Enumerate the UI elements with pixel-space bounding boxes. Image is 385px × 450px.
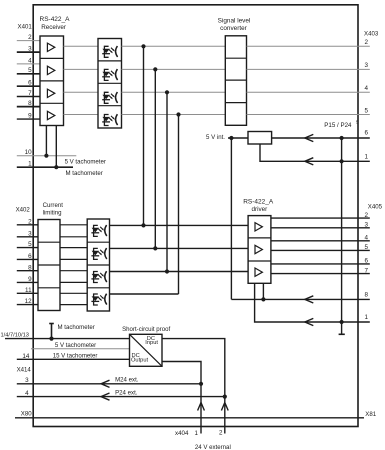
svg-text:8: 8 bbox=[28, 100, 32, 107]
svg-text:11: 11 bbox=[25, 287, 32, 294]
svg-text:Input: Input bbox=[145, 340, 158, 346]
Signal level converter label bbox=[218, 18, 251, 33]
svg-text:1: 1 bbox=[28, 161, 32, 168]
wire 5 V int node bbox=[228, 137, 248, 139]
X414 pin 14 wire (15 V tachometer) bbox=[17, 353, 130, 360]
junction node bus 1 bottom bbox=[141, 223, 145, 227]
svg-text:1: 1 bbox=[195, 430, 199, 437]
M rail wire right of DC converter bbox=[162, 339, 225, 397]
svg-text:15 V tachometer: 15 V tachometer bbox=[53, 352, 98, 359]
svg-text:Output: Output bbox=[131, 358, 148, 364]
svg-text:7: 7 bbox=[28, 90, 32, 97]
svg-text:24 V external: 24 V external bbox=[195, 444, 231, 450]
wire driver bottom to pin8 bbox=[262, 283, 264, 299]
X401 pin 5 wire bbox=[17, 67, 40, 74]
driver buffer 1 bbox=[255, 223, 262, 231]
svg-text:4: 4 bbox=[28, 57, 32, 64]
svg-text:X402: X402 bbox=[16, 206, 31, 213]
wire opto out row 2 to signal converter bbox=[122, 68, 226, 70]
junction node driver gnd on pin8 bbox=[261, 297, 265, 301]
wire receiver out 4 bbox=[64, 114, 99, 116]
X402 pin 12 wire bbox=[17, 298, 38, 305]
wire current-limit to opto pin 3 bbox=[60, 236, 87, 238]
receiver buffer 2 bbox=[47, 66, 54, 74]
wire receiver bottom to pin10 node bbox=[45, 126, 47, 156]
svg-text:Current: Current bbox=[43, 202, 64, 209]
RS-422_A driver label bbox=[243, 199, 274, 214]
label 24 V external bbox=[195, 444, 231, 450]
X402 pin 8 wire bbox=[17, 264, 38, 271]
svg-text:14: 14 bbox=[22, 353, 30, 360]
driver buffer 2 bbox=[255, 245, 262, 253]
M tachometer stub wire bbox=[49, 324, 54, 339]
svg-text:5 V tachometer: 5 V tachometer bbox=[65, 159, 106, 166]
svg-text:X81: X81 bbox=[365, 411, 376, 418]
receiver buffer 3 bbox=[47, 89, 54, 97]
junction node bus 1 top bbox=[141, 44, 145, 48]
svg-text:4: 4 bbox=[364, 85, 368, 92]
svg-text:6: 6 bbox=[28, 80, 32, 87]
arrow into pin 8 wire bbox=[305, 296, 314, 303]
svg-text:M tachometer: M tachometer bbox=[58, 324, 95, 331]
bus wire 4 vertical bbox=[178, 115, 180, 295]
5 V tachometer wire bbox=[31, 348, 130, 350]
receiver U1 block bbox=[40, 36, 64, 126]
svg-text:3: 3 bbox=[28, 230, 32, 237]
svg-text:1: 1 bbox=[364, 153, 368, 160]
svg-text:converter: converter bbox=[220, 25, 248, 32]
current limiting block bbox=[38, 220, 60, 311]
label M24 ext. bbox=[115, 377, 139, 384]
arrow into pin 6 wire bbox=[305, 134, 314, 141]
resistor R1 bbox=[248, 132, 272, 145]
junction node M24/X404-1 bbox=[199, 382, 203, 386]
svg-text:X405: X405 bbox=[368, 204, 383, 211]
X405 pin 8 wire bbox=[231, 292, 369, 300]
X403 pin 3 wire bbox=[247, 62, 370, 69]
RS-422_A Receiver label bbox=[40, 16, 71, 31]
X401 pin 2 wire bbox=[17, 34, 40, 41]
label M tachometer bbox=[66, 170, 103, 177]
svg-text:3: 3 bbox=[364, 62, 368, 69]
wire current-limit to opto pin 5 bbox=[60, 247, 87, 249]
X405 pin 2 wire bbox=[271, 212, 370, 219]
DC output wire to X404 pin 1 bbox=[162, 362, 201, 384]
label 5 V tachometer bbox=[65, 159, 106, 166]
optocoupler U2 bbox=[102, 46, 117, 57]
svg-text:12: 12 bbox=[25, 298, 33, 305]
wire opto-driver row 3 bbox=[110, 271, 249, 273]
X401 pin 6 wire bbox=[17, 80, 40, 87]
junction node bus 3 top bbox=[165, 90, 169, 94]
svg-text:2: 2 bbox=[219, 430, 223, 437]
label Short-circuit proof bbox=[122, 326, 170, 333]
optocoupler U3 bbox=[102, 69, 117, 80]
svg-text:5: 5 bbox=[364, 244, 368, 251]
junction node pin1 bbox=[54, 165, 58, 169]
wire current-limit to opto pin 9 bbox=[60, 281, 87, 283]
wire 5V int down to X405 pin8 line bbox=[230, 138, 232, 299]
svg-text:6: 6 bbox=[364, 130, 368, 137]
X401 pin 1 wire bbox=[17, 161, 73, 168]
optocoupler U9 bbox=[91, 294, 106, 305]
svg-text:X403: X403 bbox=[364, 30, 379, 37]
X403 pin 6 wire (P15/P24 supply) bbox=[272, 130, 370, 139]
svg-text:M tachometer: M tachometer bbox=[66, 170, 103, 177]
receiver buffer 4 bbox=[47, 111, 54, 119]
junction node bus 3 bottom bbox=[165, 269, 169, 273]
wire opto out row 3 to signal converter bbox=[122, 91, 226, 93]
X414 pin 4 wire (P24 ext.) bbox=[17, 390, 225, 397]
svg-text:6: 6 bbox=[364, 258, 368, 265]
svg-text:9: 9 bbox=[28, 276, 32, 283]
svg-text:5 V tachometer: 5 V tachometer bbox=[55, 342, 96, 349]
driver buffer 3 bbox=[255, 268, 262, 276]
wire opto out row 4 to signal converter bbox=[122, 114, 226, 116]
svg-text:3: 3 bbox=[25, 377, 29, 384]
arrow on P24 wire bbox=[101, 393, 110, 400]
X402 pin 3 wire bbox=[17, 230, 38, 237]
optocoupler U8 bbox=[91, 271, 106, 282]
connector X414 label bbox=[17, 366, 32, 373]
X405 pin 6 wire bbox=[271, 258, 370, 265]
svg-text:X80: X80 bbox=[21, 411, 32, 418]
DC/DC converter block bbox=[130, 334, 163, 366]
connector X405 label bbox=[368, 204, 383, 211]
svg-text:10: 10 bbox=[25, 149, 33, 156]
svg-text:P15 / P24: P15 / P24 bbox=[324, 122, 352, 129]
X414 pin 3 wire (M24 ext.) bbox=[17, 377, 201, 384]
X402 pin 5 wire bbox=[17, 241, 38, 248]
wire receiver out 2 bbox=[64, 68, 99, 70]
X405 pin 4 wire bbox=[271, 235, 370, 242]
svg-text:5: 5 bbox=[28, 241, 32, 248]
junction node bus 2 top bbox=[153, 67, 157, 71]
svg-text:X414: X414 bbox=[17, 366, 32, 373]
optocoupler block (driver side) bbox=[87, 219, 109, 311]
module border frame bbox=[33, 5, 358, 427]
connector X402 label bbox=[16, 206, 31, 213]
junction node bus 4 top bbox=[176, 112, 180, 116]
X401 pin 4 wire bbox=[17, 57, 40, 64]
optocoupler U7 bbox=[91, 248, 106, 259]
wire opto out row 1 to signal converter bbox=[122, 45, 226, 47]
label 15 V tachometer bbox=[53, 352, 98, 359]
X401 pin 3 wire bbox=[17, 46, 40, 53]
X402 pin 9 wire bbox=[17, 276, 38, 283]
wire opto-driver row 2 bbox=[110, 247, 249, 249]
X402 pin 11 wire bbox=[17, 287, 38, 294]
Current limiting label bbox=[43, 202, 64, 216]
receiver buffer 1 bbox=[47, 43, 54, 51]
label M tachometer (bottom) bbox=[58, 324, 95, 331]
svg-text:RS-422_A: RS-422_A bbox=[243, 199, 274, 206]
X403 pin 5 wire bbox=[247, 107, 370, 114]
svg-text:2: 2 bbox=[364, 212, 368, 219]
label X80 bbox=[21, 411, 32, 418]
optocoupler U5 bbox=[102, 114, 117, 125]
X404 pin 2 wire vertical bbox=[224, 397, 226, 434]
X405 pin 1 number bbox=[364, 314, 368, 321]
wire opto-driver row 1 bbox=[110, 224, 249, 226]
junction node P24 rail / pin1 bbox=[340, 320, 344, 324]
svg-text:4: 4 bbox=[25, 390, 29, 397]
svg-text:P24 ext.: P24 ext. bbox=[115, 389, 138, 396]
svg-text:5: 5 bbox=[364, 107, 368, 114]
label 5 V int. bbox=[206, 134, 225, 141]
arrow into pin 1 wire bbox=[305, 158, 314, 165]
X401 pin 7 wire bbox=[17, 90, 40, 97]
svg-text:9: 9 bbox=[28, 113, 32, 120]
svg-text:M24 ext.: M24 ext. bbox=[115, 377, 139, 384]
connector X404 label and pins bbox=[175, 430, 223, 437]
junction node bus 2 bottom bbox=[153, 246, 157, 250]
X80-X81 wire rail bbox=[15, 417, 364, 419]
svg-text:5: 5 bbox=[28, 67, 32, 74]
svg-text:2: 2 bbox=[28, 34, 32, 41]
label 5 V tachometer (bottom) bbox=[55, 342, 96, 349]
wire driver bottom to X405 pin 1 bbox=[255, 283, 370, 322]
bus wire 1 vertical bbox=[143, 46, 145, 225]
bus wire 3 vertical bbox=[166, 92, 168, 271]
svg-text:8: 8 bbox=[364, 292, 368, 299]
svg-text:2: 2 bbox=[28, 218, 32, 225]
X405 pin 5 wire bbox=[271, 244, 370, 251]
signal level converter block bbox=[225, 36, 246, 126]
svg-text:Short-circuit proof: Short-circuit proof bbox=[122, 326, 170, 333]
wire current-limit to opto pin 11 bbox=[60, 292, 87, 294]
X403 pin 4 wire bbox=[247, 85, 370, 92]
svg-text:x404: x404 bbox=[175, 430, 189, 437]
X401 pin 10 wire (5 V tachometer) bbox=[17, 149, 77, 156]
wire receiver out 1 bbox=[64, 45, 99, 47]
arrow up X404 pin 2 bbox=[221, 403, 228, 411]
X404 pin 1 wire vertical bbox=[200, 384, 202, 434]
svg-text:limiting: limiting bbox=[43, 210, 62, 217]
wire current-limit to opto pin 8 bbox=[60, 270, 87, 272]
svg-text:7: 7 bbox=[364, 267, 368, 274]
driver U10 block bbox=[248, 216, 271, 284]
optocoupler block (receiver side) bbox=[98, 39, 122, 129]
junction node pin6/P24 rail bbox=[340, 136, 344, 140]
arrow on M24 wire bbox=[101, 380, 110, 387]
X401 pin 9 wire bbox=[17, 113, 40, 120]
svg-text:1: 1 bbox=[364, 314, 368, 321]
svg-text:5 V int.: 5 V int. bbox=[206, 134, 225, 141]
bus wire 2 vertical bbox=[154, 69, 156, 248]
svg-text:X401: X401 bbox=[18, 24, 33, 31]
X403 pin 2 wire bbox=[247, 39, 370, 46]
wire resistor bottom tap bbox=[260, 144, 370, 161]
svg-text:8: 8 bbox=[28, 264, 32, 271]
svg-text:driver: driver bbox=[252, 206, 268, 213]
X402 pin 6 wire bbox=[17, 253, 38, 260]
wire current-limit to opto pin 12 bbox=[60, 304, 87, 306]
junction node pin1/P24 rail bbox=[340, 159, 344, 163]
M tachometer rail wire bbox=[5, 338, 130, 340]
optocoupler U4 bbox=[102, 92, 117, 103]
wire opto-driver row 4 bbox=[110, 293, 179, 295]
arrow up X404 pin 1 bbox=[198, 403, 205, 411]
svg-text:3: 3 bbox=[364, 222, 368, 229]
junction node 5 V int bbox=[229, 136, 233, 140]
wire receiver bottom to pin1 node bbox=[55, 126, 57, 168]
svg-text:RS-422_A: RS-422_A bbox=[40, 16, 71, 23]
wire receiver out 3 bbox=[64, 91, 99, 93]
X403 pin 1 number bbox=[364, 153, 368, 160]
X405 pin 7 wire bbox=[271, 267, 370, 274]
X401 pin 8 wire bbox=[17, 100, 40, 107]
X402 pin 2 wire bbox=[17, 218, 38, 225]
svg-text:4: 4 bbox=[364, 235, 368, 242]
junction node P24/X404-2 bbox=[223, 395, 227, 399]
label P24 ext. bbox=[115, 389, 138, 396]
arrow into pin 1 wire bbox=[305, 318, 314, 325]
svg-text:2: 2 bbox=[364, 39, 368, 46]
connector X403 label bbox=[364, 30, 379, 37]
label P15 / P24 with footnote bbox=[324, 120, 359, 129]
rail end tick bbox=[339, 333, 345, 335]
connector X401 label bbox=[18, 24, 33, 31]
svg-text:Signal level: Signal level bbox=[218, 18, 251, 25]
junction node M rail bbox=[49, 337, 53, 341]
svg-text:6: 6 bbox=[28, 253, 32, 260]
svg-text:3: 3 bbox=[28, 46, 32, 53]
svg-text:Receiver: Receiver bbox=[41, 24, 66, 31]
wire current-limit to opto pin 2 bbox=[60, 224, 87, 226]
svg-text:1/4/7/10/13: 1/4/7/10/13 bbox=[1, 333, 29, 339]
wire current-limit to opto pin 6 bbox=[60, 258, 87, 260]
X405 pin 3 wire bbox=[271, 222, 370, 229]
junction node pin10 bbox=[44, 154, 48, 158]
P24 rail vertical wire bbox=[341, 138, 343, 334]
net 1/4/7/10/13 label bbox=[1, 333, 29, 339]
label X81 bbox=[365, 411, 376, 418]
optocoupler U6 bbox=[91, 225, 106, 236]
